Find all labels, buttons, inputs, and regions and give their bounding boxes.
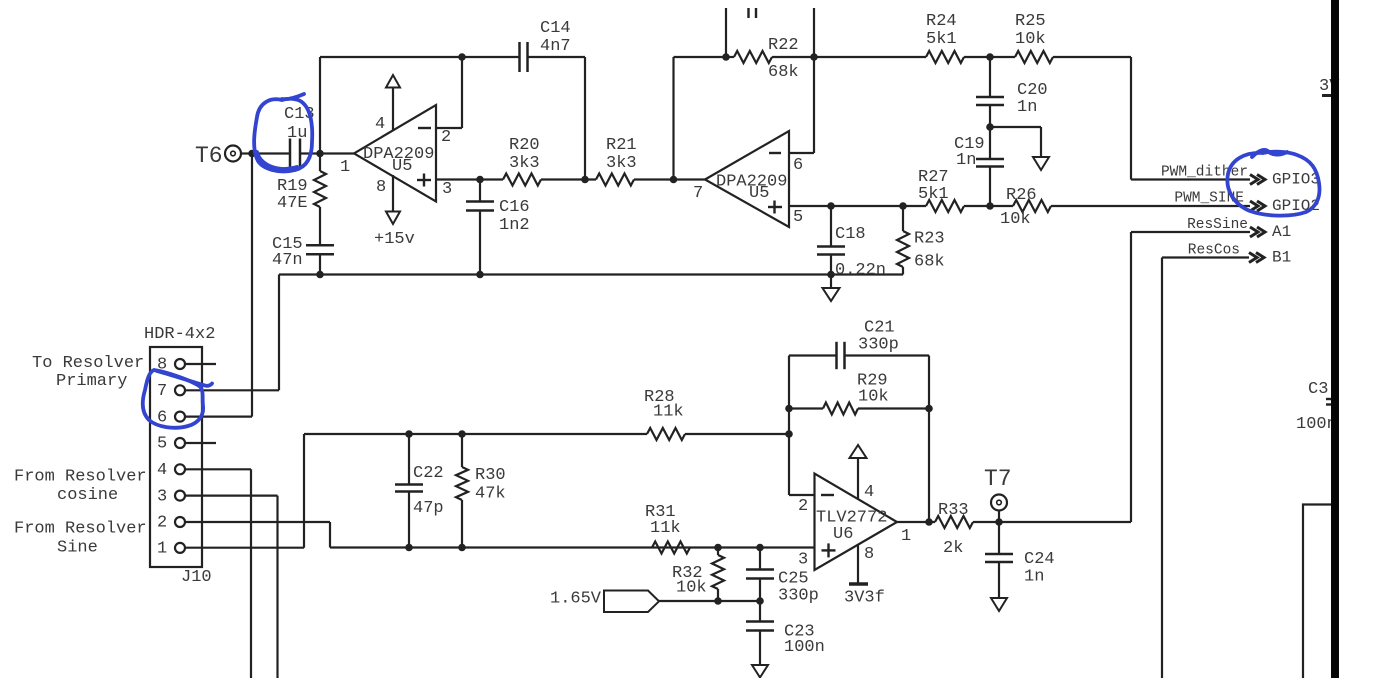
svg-text:From Resolver: From Resolver	[14, 520, 147, 539]
svg-text:3V3f: 3V3f	[844, 589, 885, 608]
svg-text:C14: C14	[540, 19, 571, 38]
svg-text:2: 2	[441, 128, 451, 147]
svg-text:1: 1	[340, 158, 350, 177]
svg-text:R21: R21	[606, 136, 637, 155]
svg-text:R26: R26	[1006, 186, 1037, 205]
svg-text:3: 3	[798, 551, 808, 570]
svg-text:100n: 100n	[1296, 415, 1337, 434]
svg-text:3: 3	[157, 487, 167, 506]
svg-text:2k: 2k	[943, 539, 963, 558]
svg-text:3k3: 3k3	[606, 154, 637, 173]
svg-text:5k1: 5k1	[918, 185, 949, 204]
svg-text:From Resolver: From Resolver	[14, 468, 147, 487]
svg-text:5: 5	[157, 435, 167, 454]
svg-text:11k: 11k	[650, 519, 681, 538]
svg-text:R24: R24	[926, 12, 957, 31]
svg-text:1n: 1n	[1017, 98, 1037, 117]
svg-text:R25: R25	[1015, 12, 1046, 31]
svg-text:4: 4	[375, 115, 385, 134]
svg-text:A1: A1	[1272, 223, 1291, 241]
svg-text:U5: U5	[392, 157, 412, 176]
svg-text:330p: 330p	[858, 336, 899, 355]
svg-text:2: 2	[157, 514, 167, 533]
svg-text:47p: 47p	[413, 499, 444, 518]
svg-text:7: 7	[693, 184, 703, 203]
svg-text:ResSine: ResSine	[1187, 217, 1248, 233]
svg-text:1n: 1n	[956, 151, 976, 170]
svg-text:1: 1	[157, 540, 167, 559]
svg-text:68k: 68k	[914, 253, 945, 272]
svg-text:0.22n: 0.22n	[835, 261, 886, 280]
svg-text:68k: 68k	[768, 63, 799, 82]
svg-text:R33: R33	[938, 501, 969, 520]
svg-text:To Resolver: To Resolver	[32, 354, 144, 373]
svg-text:R23: R23	[914, 230, 945, 249]
svg-text:47n: 47n	[272, 251, 303, 270]
svg-text:10k: 10k	[676, 579, 707, 598]
svg-text:7: 7	[157, 382, 167, 401]
svg-text:1: 1	[901, 527, 911, 546]
svg-text:3: 3	[442, 180, 452, 199]
svg-text:11k: 11k	[653, 403, 684, 422]
svg-text:3k3: 3k3	[509, 154, 540, 173]
svg-text:+15v: +15v	[374, 230, 415, 249]
svg-text:J10: J10	[181, 568, 212, 587]
svg-text:cosine: cosine	[57, 486, 118, 505]
svg-text:5: 5	[793, 208, 803, 227]
svg-text:Sine: Sine	[57, 539, 98, 558]
svg-text:B1: B1	[1272, 249, 1291, 267]
svg-text:100n: 100n	[784, 638, 825, 657]
svg-text:8: 8	[376, 178, 386, 197]
svg-text:PWM_dither: PWM_dither	[1161, 165, 1248, 181]
svg-text:5k1: 5k1	[926, 30, 957, 49]
svg-text:R22: R22	[768, 36, 799, 55]
svg-text:R30: R30	[475, 466, 506, 485]
svg-text:1u: 1u	[287, 124, 307, 143]
svg-text:ResCos: ResCos	[1188, 243, 1240, 259]
svg-text:4n7: 4n7	[540, 37, 571, 56]
svg-text:1.65V: 1.65V	[550, 590, 602, 609]
svg-text:C24: C24	[1024, 550, 1055, 569]
svg-text:10k: 10k	[1015, 30, 1046, 49]
svg-text:U5: U5	[749, 184, 769, 203]
svg-text:C16: C16	[499, 198, 530, 217]
svg-text:47k: 47k	[475, 485, 506, 504]
svg-text:GPIO3: GPIO3	[1272, 171, 1320, 189]
svg-text:4: 4	[864, 483, 874, 502]
svg-text:2: 2	[798, 497, 808, 516]
svg-text:1n: 1n	[1024, 568, 1044, 587]
svg-text:10k: 10k	[1000, 210, 1031, 229]
svg-text:HDR-4x2: HDR-4x2	[144, 325, 215, 344]
svg-text:C18: C18	[835, 225, 866, 244]
svg-text:C3: C3	[1308, 380, 1328, 399]
svg-text:10k: 10k	[858, 388, 889, 407]
svg-text:1n2: 1n2	[499, 216, 530, 235]
svg-text:U6: U6	[833, 525, 853, 544]
svg-text:C22: C22	[413, 464, 444, 483]
svg-text:Primary: Primary	[56, 372, 127, 391]
svg-text:R20: R20	[509, 136, 540, 155]
svg-text:47E: 47E	[277, 194, 308, 213]
svg-text:T7: T7	[984, 466, 1012, 492]
svg-text:6: 6	[793, 156, 803, 175]
svg-text:8: 8	[864, 545, 874, 564]
svg-text:4: 4	[157, 461, 167, 480]
svg-text:330p: 330p	[778, 587, 819, 606]
svg-text:T6: T6	[195, 143, 223, 169]
